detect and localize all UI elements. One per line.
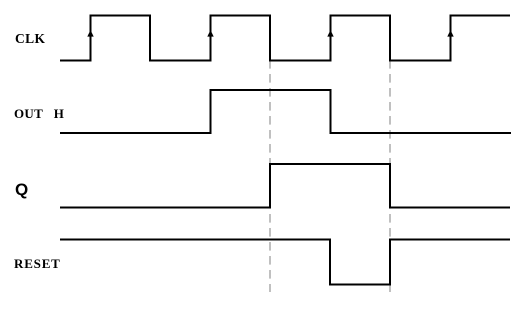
dashed marker line T2 (x=390) bbox=[389, 60, 391, 292]
svg-text:RESET: RESET bbox=[14, 256, 61, 271]
dashed marker line T1 (x=270) bbox=[269, 60, 271, 292]
svg-text:CLK: CLK bbox=[15, 31, 46, 46]
svg-text:OUT H: OUT H bbox=[14, 106, 64, 121]
wire OUT H waveform bbox=[60, 90, 511, 133]
wire CLK waveform bbox=[60, 16, 510, 61]
arrow CLK rising edge 3 bbox=[327, 30, 333, 37]
svg-text:Q: Q bbox=[15, 180, 28, 199]
wire Q waveform bbox=[60, 164, 510, 208]
arrow CLK rising edge 2 bbox=[207, 30, 213, 37]
wire RESET waveform bbox=[60, 240, 510, 285]
arrow CLK rising edge 1 bbox=[87, 30, 93, 37]
arrow CLK rising edge 4 bbox=[447, 30, 453, 37]
